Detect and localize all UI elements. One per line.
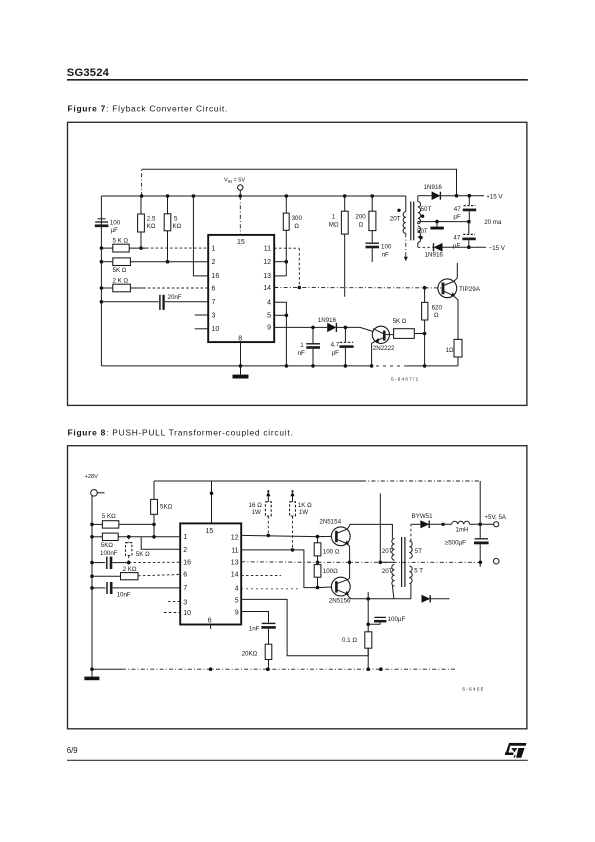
svg-text:µF: µF	[111, 227, 119, 234]
svg-text:nF: nF	[382, 251, 389, 258]
wire VIN rail (top)	[101, 195, 405, 197]
svg-text:100 Ω: 100 Ω	[323, 549, 340, 556]
resistor 5K (pin1)	[100, 238, 209, 253]
svg-text:Ω: Ω	[359, 222, 364, 229]
svg-text:20T: 20T	[382, 548, 393, 555]
svg-text:20T: 20T	[390, 216, 401, 223]
svg-text:SG3524: SG3524	[67, 67, 110, 79]
svg-text:50T: 50T	[421, 206, 432, 213]
svg-text:47: 47	[454, 206, 461, 213]
svg-text:1N916: 1N916	[318, 317, 337, 324]
wire pin15 feed fig8	[210, 481, 214, 523]
svg-text:2 KΩ: 2 KΩ	[123, 566, 137, 573]
resistor 5K (horizontal top)	[90, 513, 154, 528]
svg-text:1K Ω: 1K Ω	[298, 502, 312, 509]
svg-text:5K Ω: 5K Ω	[136, 551, 150, 558]
figure 7 frame	[68, 122, 527, 405]
svg-text:1W: 1W	[299, 509, 308, 516]
wire pin10 stub	[195, 328, 209, 330]
svg-text:5: 5	[174, 216, 178, 223]
svg-text:16: 16	[212, 273, 220, 280]
transistor Q2 2N2222	[370, 326, 395, 368]
diode BYW51 (bottom)	[422, 595, 450, 603]
wire bottom ground rail	[101, 365, 373, 367]
svg-text:µF: µF	[453, 242, 461, 249]
svg-text:300: 300	[292, 215, 303, 222]
resistor 0.1 ohm (sense)	[342, 592, 372, 669]
svg-text:1N916: 1N916	[425, 251, 444, 258]
footer rule	[67, 759, 528, 761]
wire pin12	[274, 261, 286, 263]
svg-text:+15 V: +15 V	[486, 193, 503, 200]
wire pin3 stub	[195, 314, 209, 316]
svg-text:2: 2	[183, 547, 187, 554]
svg-text:1nF: 1nF	[249, 625, 260, 632]
svg-text:Ω: Ω	[434, 312, 439, 319]
inductor 1mH	[452, 521, 494, 533]
svg-text:1: 1	[183, 534, 187, 541]
figure 8 frame	[68, 446, 527, 729]
transformer T2	[379, 494, 424, 599]
svg-text:13: 13	[263, 273, 271, 280]
wire pin5 sense loop	[241, 599, 368, 655]
svg-text:5 KΩ: 5 KΩ	[102, 513, 116, 520]
svg-text:2N2222: 2N2222	[373, 345, 395, 352]
svg-text:5KΩ: 5KΩ	[160, 504, 173, 511]
wire bottom rail fig8	[92, 667, 456, 671]
svg-text:0.1 Ω: 0.1 Ω	[342, 637, 357, 644]
svg-text:BYW51: BYW51	[412, 513, 434, 520]
diode 1N916 (top, +15V)	[424, 184, 504, 201]
svg-text:+5V, 5A: +5V, 5A	[484, 514, 506, 521]
svg-text:KΩ: KΩ	[147, 223, 156, 230]
capacitor 100uF	[95, 219, 121, 234]
svg-text:5: 5	[267, 313, 271, 320]
wire top rail fig8	[154, 480, 480, 482]
svg-text:5 T: 5 T	[414, 567, 423, 574]
svg-text:5K Ω: 5K Ω	[393, 318, 407, 325]
resistor 100 ohm (upper)	[314, 535, 340, 564]
resistor 620 ohm	[422, 286, 443, 368]
diode 1N916 (pin9)	[318, 317, 373, 332]
svg-text:11: 11	[264, 245, 271, 252]
svg-text:7: 7	[183, 585, 187, 592]
wire pin4 stub	[241, 588, 299, 590]
svg-text:+28V: +28V	[85, 474, 98, 480]
ground symbol fig7	[233, 366, 249, 379]
wire center tap / 20mA output	[418, 219, 502, 226]
wire pin12 to Q3 base	[241, 535, 317, 536]
svg-text:100µF: 100µF	[388, 616, 406, 623]
op-amp U2 SG3524 IC body	[180, 523, 241, 629]
svg-text:1: 1	[300, 342, 304, 349]
svg-text:MΩ: MΩ	[329, 222, 339, 229]
svg-text:2N5154: 2N5154	[319, 518, 341, 525]
ground symbol fig8	[84, 667, 99, 680]
svg-text:20T: 20T	[382, 568, 393, 575]
header rule	[67, 79, 528, 81]
resistor 16 ohm 1W (pull-up pin12)	[249, 490, 272, 537]
wire left rail	[100, 196, 102, 366]
svg-text:6: 6	[212, 285, 216, 292]
svg-text:10: 10	[183, 610, 191, 617]
wire pin11 to Q4 base	[241, 550, 317, 588]
svg-text:2.5: 2.5	[147, 216, 156, 223]
transformer T1	[390, 196, 432, 262]
resistor 5k (pin1 row)	[90, 533, 180, 549]
wire pin13 / center line	[241, 561, 480, 565]
wire pin9 row fig8	[241, 612, 268, 623]
wire pin2 bracket fig8	[141, 537, 180, 550]
svg-text:5K Ω: 5K Ω	[113, 267, 127, 274]
wire pin14 stub	[241, 575, 281, 577]
svg-text:1: 1	[212, 245, 216, 252]
svg-text:S - 6 4 6 7 / 1: S - 6 4 6 7 / 1	[391, 377, 419, 382]
svg-text:Figure 8: PUSH-PULL Transforme: Figure 8: PUSH-PULL Transformer-coupled …	[68, 428, 294, 438]
resistor 5K (Q2 collector)	[393, 318, 427, 339]
svg-text:5T: 5T	[415, 548, 422, 555]
resistor 1K 1W (pull-up pin11)	[290, 490, 312, 552]
svg-text:12: 12	[231, 534, 239, 541]
svg-text:Figure 7: Flyback Converter Ci: Figure 7: Flyback Converter Circuit.	[68, 103, 229, 113]
svg-text:47: 47	[453, 235, 460, 242]
svg-text:1Ω: 1Ω	[446, 347, 454, 354]
svg-text:16: 16	[183, 559, 191, 566]
ST logo	[505, 743, 526, 758]
wire pin13	[274, 275, 286, 277]
svg-text:−15 V: −15 V	[489, 245, 506, 252]
svg-text:1: 1	[332, 213, 336, 220]
capacitor 47uF (lower)	[453, 222, 476, 250]
resistor 5K (vertical small)	[126, 537, 151, 565]
svg-text:1mH: 1mH	[455, 526, 468, 533]
diode 1N916 (bottom, -15V)	[418, 243, 506, 258]
svg-text:2N5156: 2N5156	[329, 598, 351, 605]
svg-text:3: 3	[212, 312, 216, 319]
svg-text:10: 10	[212, 326, 220, 333]
resistor 20K	[242, 644, 272, 669]
resistor 200 ohm	[355, 194, 376, 242]
svg-text:6/9: 6/9	[67, 746, 78, 755]
svg-text:11: 11	[231, 547, 238, 554]
svg-text:1N916: 1N916	[424, 184, 443, 191]
capacitor 100uF (sense filter)	[366, 616, 405, 626]
svg-text:8: 8	[238, 336, 242, 343]
resistor 1 ohm	[446, 339, 462, 366]
svg-text:9: 9	[267, 325, 271, 332]
svg-text:20nF: 20nF	[168, 294, 182, 301]
svg-text:100Ω: 100Ω	[323, 568, 338, 575]
wire pin11 (dashed)	[274, 248, 301, 289]
wire pins 4+5 to ground	[274, 302, 288, 368]
svg-text:100nF: 100nF	[100, 550, 118, 557]
svg-text:15: 15	[206, 528, 214, 535]
transistor Q3 2N5154	[318, 518, 393, 578]
svg-text:100: 100	[381, 243, 392, 250]
capacitor 47uF (upper)	[453, 196, 476, 222]
svg-text:TIP29A: TIP29A	[459, 286, 481, 293]
svg-text:10nF: 10nF	[117, 591, 131, 598]
svg-text:20 ma: 20 ma	[484, 219, 502, 226]
node VIN terminal	[224, 178, 245, 198]
resistor 5k vertical	[164, 194, 181, 263]
svg-text:1W: 1W	[252, 509, 261, 516]
op-amp U1 SG3524 IC body	[208, 235, 274, 343]
svg-text:KΩ: KΩ	[173, 223, 182, 230]
svg-text:µF: µF	[332, 349, 340, 356]
wire pin15 feed (dash-dot)	[239, 196, 241, 235]
svg-text:6: 6	[208, 618, 212, 625]
svg-text:VIN = 5V: VIN = 5V	[224, 178, 245, 185]
svg-text:14: 14	[263, 285, 271, 292]
wire left rail fig8	[91, 496, 93, 670]
svg-text:5: 5	[235, 597, 239, 604]
wire pin10 stub fig8	[164, 612, 180, 614]
node +28V terminal	[85, 474, 105, 496]
svg-text:nF: nF	[298, 350, 305, 357]
wire pin14 line to Q2 base	[274, 287, 443, 289]
capacitor 10nF (pin7 row)	[90, 582, 180, 598]
svg-text:4: 4	[267, 300, 271, 307]
svg-text:20KΩ: 20KΩ	[242, 650, 258, 657]
svg-text:≥500µF: ≥500µF	[445, 540, 466, 547]
wire pin16 feed	[192, 194, 209, 276]
svg-text:5KΩ: 5KΩ	[101, 542, 114, 549]
svg-text:7: 7	[212, 299, 216, 306]
svg-text:4: 4	[235, 585, 239, 592]
svg-text:200: 200	[355, 213, 366, 220]
resistor 5K (pin2)	[100, 258, 209, 274]
wire pin3 stub fig8	[168, 601, 180, 603]
ground (center tap)	[430, 222, 443, 230]
resistor 300 ohm	[283, 194, 302, 276]
svg-text:Ω: Ω	[294, 223, 299, 230]
resistor 100 ohm (lower)	[314, 562, 338, 589]
svg-text:2: 2	[212, 259, 216, 266]
transistor Q4 2N5156	[318, 577, 412, 604]
capacitor 1nF	[298, 326, 320, 368]
svg-text:50T: 50T	[417, 228, 428, 235]
svg-text:100: 100	[110, 219, 121, 226]
svg-text:9: 9	[235, 609, 239, 616]
capacitor 20nF (pin7)	[100, 294, 209, 310]
svg-text:620: 620	[432, 304, 443, 311]
capacitor 100nF	[366, 243, 392, 262]
node minus output terminal	[493, 558, 499, 564]
svg-text:3: 3	[183, 599, 187, 606]
svg-text:S - 6 4 5 5: S - 6 4 5 5	[462, 687, 484, 692]
resistor 2K (pin6 row)	[90, 566, 180, 580]
svg-text:15: 15	[237, 239, 245, 246]
capacitor 500uF	[445, 481, 489, 567]
svg-text:12: 12	[263, 259, 271, 266]
svg-text:4.7: 4.7	[331, 342, 340, 349]
wire pin8 to ground	[239, 342, 243, 368]
wire pin9 line	[274, 326, 327, 328]
svg-text:16 Ω: 16 Ω	[249, 502, 263, 509]
diode BYW51 (top)	[411, 513, 452, 528]
capacitor 1nF fig8	[249, 623, 276, 644]
transistor Q1 TIP29A	[438, 263, 481, 340]
resistor 2.5k	[138, 196, 156, 250]
resistor 5k (feedback top)	[151, 481, 173, 539]
resistor 1M	[329, 194, 348, 297]
svg-text:14: 14	[231, 571, 239, 578]
svg-text:13: 13	[231, 559, 239, 566]
capacitor 100nF (pin16 row)	[90, 550, 180, 569]
resistor 2K (pin6)	[100, 278, 209, 292]
node +5V output terminal	[484, 514, 506, 527]
svg-text:6: 6	[183, 571, 187, 578]
svg-text:µF: µF	[453, 214, 461, 221]
svg-text:2 K Ω: 2 K Ω	[113, 278, 129, 285]
svg-text:5 K Ω: 5 K Ω	[113, 238, 129, 245]
capacitor 4.7uF	[331, 326, 354, 368]
wire outer top loop to +15V node	[141, 169, 143, 196]
